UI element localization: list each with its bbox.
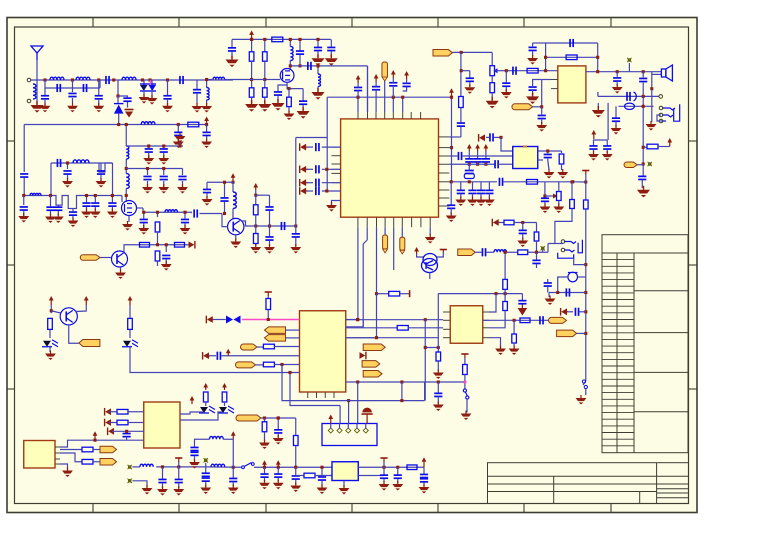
wire u7 gnd bbox=[60, 464, 68, 470]
wire low bus bbox=[24, 124, 206, 126]
port G bbox=[458, 249, 476, 256]
terminal L1 bbox=[128, 465, 132, 469]
wire trunk mid bbox=[125, 159, 127, 174]
ground n5 bbox=[264, 244, 275, 254]
capacitor Ct1 bbox=[354, 87, 362, 90]
wire u2 bottom2 bbox=[607, 103, 609, 140]
resistor R n2 bbox=[255, 226, 257, 234]
capacitor c row5 bbox=[111, 196, 113, 203]
second row bbox=[598, 95, 659, 97]
capacitor C d bbox=[118, 96, 128, 97]
arrow l4 bbox=[422, 457, 427, 467]
ground l4 bbox=[200, 485, 211, 495]
resistor R v1b bbox=[251, 80, 253, 88]
capacitor C k3 bbox=[277, 418, 279, 429]
switch chain bbox=[461, 354, 468, 358]
capacitor C bus2 bbox=[206, 125, 208, 132]
ground v1b bbox=[245, 100, 258, 112]
wire gate left bbox=[207, 79, 213, 81]
wire h2 long bbox=[130, 346, 300, 373]
wire left drop bbox=[23, 125, 25, 173]
resistor R v2 bbox=[263, 52, 268, 61]
led K2 bbox=[218, 406, 234, 413]
pink wire bbox=[242, 319, 300, 321]
power arrow u4t bbox=[190, 396, 195, 404]
wire con v1 bbox=[339, 406, 341, 424]
wire 181 drops bbox=[571, 180, 574, 183]
capacitor C rc3 bbox=[638, 176, 646, 179]
ground rc1 bbox=[588, 151, 599, 161]
wire g row2 bbox=[507, 251, 518, 253]
resistor R j1 bbox=[503, 279, 508, 289]
capacitor C r2b bbox=[163, 169, 165, 176]
resistor R b2 bbox=[175, 242, 185, 247]
wire I bottom bbox=[281, 365, 283, 373]
resistor R k1 bbox=[82, 447, 93, 452]
title block bbox=[488, 463, 689, 504]
testpoint port TP1 bbox=[382, 62, 388, 78]
pins u6 bbox=[443, 311, 450, 313]
capacitor C in top bbox=[529, 47, 537, 50]
capacitor C link1 bbox=[57, 84, 60, 92]
port F1 bbox=[549, 317, 567, 323]
wire q4 right lead bbox=[437, 253, 444, 258]
wire rc res bbox=[644, 146, 648, 148]
capacitor C trim bbox=[541, 198, 549, 201]
pins U1 left bbox=[332, 146, 341, 148]
capacitor C I355 bbox=[217, 352, 220, 360]
term sw bbox=[466, 399, 468, 413]
capacitor C g4 bbox=[167, 80, 169, 96]
ground u1 left bbox=[326, 202, 337, 212]
capacitor comb2 bbox=[57, 205, 59, 206]
ground u8 bbox=[343, 481, 345, 488]
capacitor Ct3 bbox=[392, 97, 394, 112]
vert inductor Lq bbox=[317, 66, 319, 74]
IC U4 bbox=[144, 402, 180, 448]
port H bbox=[79, 340, 100, 347]
capacitor C b bbox=[165, 245, 167, 252]
resistor R h2 bbox=[128, 318, 133, 329]
power arrow B bbox=[249, 30, 254, 39]
port K3 bbox=[236, 415, 261, 421]
power arrow k bbox=[93, 431, 98, 440]
ground q4 pin bbox=[425, 234, 436, 244]
capacitor C g2 bbox=[72, 88, 74, 92]
wire f trim bbox=[544, 182, 546, 196]
arrow I in bbox=[206, 316, 213, 324]
wire q6 emit bbox=[235, 235, 237, 241]
capacitor C 311 bbox=[575, 308, 578, 316]
trunk end cap bbox=[450, 182, 452, 205]
vert 438 bbox=[437, 294, 439, 348]
wire g bend bbox=[536, 223, 538, 232]
antenna bbox=[31, 46, 43, 60]
wire q3 gate bbox=[265, 79, 280, 81]
capacitor C 164 bbox=[495, 160, 498, 168]
capacitor C vq2 bbox=[302, 89, 304, 101]
capacitor comb3 bbox=[72, 209, 74, 212]
wire gate bus bbox=[232, 79, 265, 81]
capacitor C r1b bbox=[163, 146, 165, 148]
wire RF main bus bbox=[30, 79, 233, 81]
wire lb1 down bbox=[289, 61, 291, 69]
transistor Q4 bbox=[422, 254, 438, 273]
ground antenna bbox=[36, 80, 38, 104]
resistor Rb ser bbox=[272, 37, 283, 42]
junction dots RF bus bbox=[43, 78, 46, 81]
capacitor C l3 bbox=[205, 467, 207, 473]
port I3 bbox=[241, 344, 257, 350]
ground l1 bbox=[157, 486, 168, 496]
wire k3 bbox=[261, 417, 296, 419]
capacitor c row4 bbox=[94, 196, 96, 203]
wire g to jack bbox=[547, 244, 549, 253]
wire bus con1 bbox=[282, 365, 425, 401]
resistor R g2 bbox=[534, 232, 539, 241]
wire b drop1 bbox=[251, 39, 253, 51]
power T l2 bbox=[380, 458, 387, 462]
capacitor C g row bbox=[482, 248, 485, 256]
capacitor C l6 bbox=[277, 467, 279, 473]
wire row2 right bbox=[126, 168, 182, 170]
resistor R loop bbox=[566, 55, 577, 60]
wire trim v1 bbox=[460, 52, 462, 97]
resistor R l bbox=[304, 473, 315, 478]
row 311 bbox=[561, 308, 568, 316]
wire u5 gap bbox=[346, 381, 350, 383]
power arrow A bbox=[204, 117, 209, 125]
wire jack hook bbox=[574, 258, 586, 264]
wire out row bbox=[586, 71, 662, 73]
wire sr up bbox=[597, 92, 599, 96]
wire u8 r1 bbox=[358, 466, 424, 468]
wire q5 emit bbox=[76, 305, 87, 312]
wire u3 right r1 bbox=[538, 150, 562, 152]
ground out1 bbox=[612, 84, 623, 94]
led chain2 bbox=[222, 383, 227, 390]
wire jack vert bbox=[651, 72, 653, 89]
ground o1 bbox=[138, 225, 149, 235]
vert 425 bbox=[424, 320, 426, 401]
nc flower bbox=[627, 58, 631, 62]
capacitor C tr4 bbox=[505, 71, 507, 83]
wire link drop1 bbox=[72, 80, 74, 88]
ground s2 bbox=[62, 178, 73, 188]
capacitor C b2 bbox=[299, 39, 301, 50]
wire res loop bbox=[546, 56, 598, 58]
arrow r1 bbox=[479, 134, 485, 142]
inductor L2 bbox=[76, 77, 90, 80]
jack2 terms bbox=[561, 240, 565, 244]
wire l sub bbox=[296, 475, 304, 477]
port F2 bbox=[557, 330, 577, 337]
wire row 292 bbox=[549, 292, 586, 294]
wire loop right bbox=[521, 294, 523, 301]
power arrow trunkR bbox=[449, 88, 454, 97]
capacitor C o1 bbox=[143, 212, 145, 218]
power T l bbox=[175, 458, 182, 462]
ground r1c bbox=[179, 141, 181, 146]
wire tr low bbox=[460, 108, 462, 123]
wire vtop bus bbox=[232, 38, 331, 40]
inductor L b1 bbox=[290, 46, 293, 60]
jack J2 bbox=[558, 240, 583, 258]
capacitor C series vert bbox=[20, 174, 28, 177]
vert u1p2 bbox=[366, 227, 368, 240]
ground n1 bbox=[202, 196, 213, 206]
wire loop left bbox=[545, 43, 547, 70]
capacitor C r1 bbox=[490, 133, 493, 141]
capacitor C l1 bbox=[162, 467, 164, 479]
resistor R I top bbox=[265, 292, 272, 296]
capacitor C l10 bbox=[397, 467, 399, 474]
wire u7 r1 bbox=[60, 449, 82, 451]
resistor R 438 bbox=[436, 352, 441, 361]
arrow-cap row L4 bbox=[300, 187, 308, 195]
wire l chain2 bbox=[254, 466, 332, 468]
terminal L2 bbox=[128, 479, 132, 483]
inductor L6 bbox=[30, 193, 41, 195]
wire jack left bbox=[657, 115, 662, 121]
res row293 bbox=[377, 293, 389, 295]
pink net mark bbox=[150, 80, 152, 85]
capacitor C o2 bbox=[184, 212, 186, 218]
headphone jack J1 bbox=[662, 104, 680, 121]
IC U7 bbox=[24, 441, 55, 469]
nc rc bbox=[648, 162, 652, 166]
capacitor C k bbox=[126, 431, 128, 433]
row B bbox=[346, 327, 398, 329]
ground c in bbox=[527, 55, 538, 65]
wire port audio bbox=[533, 106, 542, 108]
ground r2a bbox=[142, 184, 153, 194]
wire port F2 bbox=[577, 332, 586, 334]
capacitor C rc2 bbox=[606, 140, 608, 145]
wire q4 left lead bbox=[417, 254, 423, 257]
ground l9 bbox=[189, 459, 200, 469]
microphone MK1 bbox=[568, 272, 578, 282]
wire row 181 bbox=[449, 181, 497, 183]
power arrow n bbox=[231, 173, 236, 182]
capacitor C n1 bbox=[206, 182, 208, 188]
pins U1 bottom bbox=[357, 217, 359, 227]
wire vert trunk bbox=[125, 125, 127, 147]
wire bus 382 bbox=[350, 381, 465, 383]
capacitor C fb bbox=[529, 87, 537, 90]
power arrow u2 bbox=[591, 130, 596, 139]
ground l11 bbox=[392, 481, 403, 491]
vert u1p1 bbox=[357, 227, 359, 319]
wire g row bbox=[475, 251, 481, 253]
power down arrow bbox=[518, 304, 528, 315]
resistor R h bbox=[48, 318, 53, 329]
ground r1b bbox=[158, 155, 169, 165]
connector CON1 bbox=[322, 424, 377, 446]
power arrow t4 bbox=[404, 71, 409, 79]
jack row bbox=[619, 105, 654, 107]
ground j1 bbox=[611, 125, 622, 135]
capacitor C in bbox=[513, 67, 516, 75]
revision table bbox=[602, 235, 688, 453]
power flags bbox=[467, 144, 472, 151]
jdot l bbox=[232, 466, 235, 469]
wire b drop2 bbox=[264, 39, 266, 51]
wire trunk over U1 bbox=[327, 96, 451, 98]
resistor R 181 bbox=[527, 180, 538, 185]
vert 357 down bbox=[357, 382, 359, 424]
IC U1 bbox=[341, 119, 439, 217]
capacitor C l9 bbox=[383, 467, 385, 474]
wire u7 r2 bbox=[60, 453, 82, 462]
inductor L l3 bbox=[210, 437, 224, 440]
led D h1 bbox=[42, 340, 58, 347]
resistor R n1 bbox=[255, 195, 257, 205]
node RF in2 bbox=[27, 99, 31, 103]
flag caps bbox=[468, 151, 470, 159]
capacitor C cer row2 bbox=[458, 152, 461, 160]
capacitor C r2c bbox=[182, 169, 184, 176]
capacitor C l11 bbox=[423, 467, 425, 474]
resistor R o bbox=[157, 212, 159, 217]
inductor L g row bbox=[494, 250, 507, 253]
led D h2 bbox=[122, 340, 138, 347]
transistor Q2 bbox=[112, 251, 128, 267]
capacitor C 292l bbox=[544, 283, 552, 286]
capacitor C g5 bbox=[22, 194, 25, 197]
vert 438 low bbox=[437, 382, 439, 393]
diode D2 bbox=[117, 96, 119, 104]
wire q4 down bbox=[429, 273, 431, 280]
capacitor C b3 bbox=[317, 39, 319, 46]
wire mic left bbox=[558, 277, 568, 293]
wire F drop2 bbox=[585, 182, 587, 200]
ground l12 bbox=[419, 484, 430, 494]
resistor R tr bbox=[459, 97, 464, 108]
wire u1 t2 bbox=[367, 66, 369, 112]
wire q2 emit bbox=[120, 267, 122, 272]
ground k3 bbox=[259, 440, 270, 450]
wire loop right bbox=[597, 43, 599, 72]
inductor L gb bbox=[206, 80, 208, 88]
ground d bbox=[125, 110, 134, 118]
resistor R l2 bbox=[407, 465, 417, 470]
ground q6 bbox=[230, 239, 241, 249]
row 222 bbox=[492, 219, 499, 227]
wire r b3 down bbox=[157, 261, 159, 266]
inductor L o bbox=[165, 210, 178, 213]
wire mid-left bus bbox=[24, 195, 50, 197]
ground rc big bbox=[637, 186, 650, 198]
IC U2 bbox=[558, 66, 586, 103]
ground u3b bbox=[557, 169, 568, 179]
ground l8b bbox=[317, 485, 328, 495]
resistor R ser bbox=[188, 122, 199, 127]
ground row4 bbox=[90, 209, 101, 219]
ground l10 bbox=[379, 481, 390, 491]
ground trim bbox=[540, 204, 551, 214]
wire in row bbox=[510, 70, 558, 72]
wire f1 down bbox=[555, 209, 572, 244]
u5 r3 bbox=[346, 337, 377, 339]
wire to mosfet bbox=[121, 196, 123, 203]
wire con v2 bbox=[348, 401, 350, 424]
row B tap bbox=[362, 320, 364, 328]
arrow small I bbox=[226, 349, 231, 356]
power arrow t1 bbox=[356, 75, 361, 83]
speaker LS1 bbox=[652, 73, 662, 75]
resistor R g3 bbox=[518, 250, 528, 255]
comb meander wire bbox=[51, 196, 123, 209]
inductor Lv1 bbox=[126, 146, 129, 159]
wire F drop1 bbox=[571, 182, 573, 200]
wire top loop bbox=[546, 42, 598, 44]
wire n bias row bbox=[207, 181, 233, 183]
resistor R I4 bbox=[263, 362, 274, 367]
ground u6 bbox=[495, 346, 506, 356]
wire h bias bbox=[50, 305, 52, 313]
resistor R 320 bbox=[520, 318, 530, 323]
wire l2 bbox=[156, 466, 206, 468]
wire u8 r2 bbox=[358, 475, 384, 477]
capacitor C out1 bbox=[616, 72, 618, 77]
port V1 bbox=[384, 227, 386, 235]
resistor R k2 bbox=[82, 459, 93, 464]
capacitor C s4 bbox=[100, 163, 102, 169]
port I2 bbox=[265, 335, 286, 342]
capacitor C out2 bbox=[642, 72, 644, 78]
capacitor C b4 bbox=[330, 39, 332, 46]
capacitor C n7 bbox=[294, 224, 297, 227]
ground v2b bbox=[258, 100, 271, 112]
wire l chain bbox=[206, 466, 240, 468]
wire subckt sides bbox=[50, 163, 52, 196]
resistor R g1 bbox=[504, 220, 514, 225]
inductor L3 bbox=[122, 77, 136, 80]
ground b3 bbox=[312, 54, 325, 66]
wire u2 fb bbox=[542, 79, 551, 81]
ground comb2 bbox=[53, 214, 64, 224]
vert u1p3 bbox=[376, 227, 378, 294]
vert 401 down bbox=[401, 382, 403, 401]
inductor L l2 bbox=[211, 464, 225, 467]
ground g3 bbox=[93, 103, 104, 113]
capacitor C l7 bbox=[295, 467, 297, 475]
IC U6 bbox=[450, 306, 483, 344]
caps under row181 bbox=[460, 182, 462, 191]
capacitor C link2 bbox=[83, 84, 86, 92]
switch SW2 bbox=[463, 389, 466, 392]
trimmer R t bbox=[545, 195, 553, 197]
ground u7 bbox=[62, 468, 73, 478]
capacitor C tr2 bbox=[460, 69, 463, 72]
port K2 bbox=[100, 459, 117, 466]
capacitor C u3a bbox=[547, 151, 549, 153]
ground 320b bbox=[509, 346, 520, 356]
ground r1a bbox=[143, 155, 154, 165]
nc g bbox=[541, 246, 545, 250]
ground o2 bbox=[180, 225, 191, 235]
wire r1 to U3 bbox=[501, 137, 513, 151]
wire link drop2 bbox=[99, 80, 101, 88]
port K1 bbox=[100, 446, 117, 453]
wire trim row bbox=[452, 51, 492, 53]
wire bias row bbox=[131, 244, 191, 246]
resistor R k4 bbox=[293, 436, 298, 446]
port V2 bbox=[401, 227, 403, 237]
ground gb bbox=[201, 103, 212, 113]
transistor Q5 bbox=[60, 308, 77, 325]
